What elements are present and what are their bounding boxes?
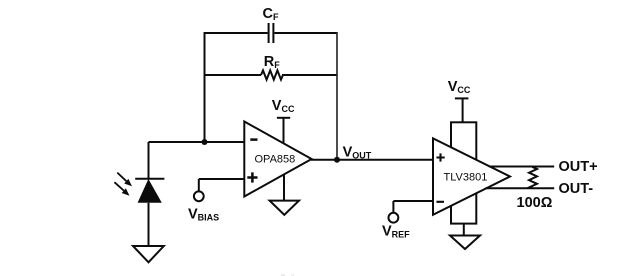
svg-text:OUT-: OUT- bbox=[559, 181, 594, 197]
svg-text:OPA858: OPA858 bbox=[255, 154, 296, 166]
svg-text:OUT+: OUT+ bbox=[559, 159, 598, 175]
svg-text:TLV3801: TLV3801 bbox=[444, 172, 488, 184]
svg-text:100Ω: 100Ω bbox=[517, 195, 553, 211]
